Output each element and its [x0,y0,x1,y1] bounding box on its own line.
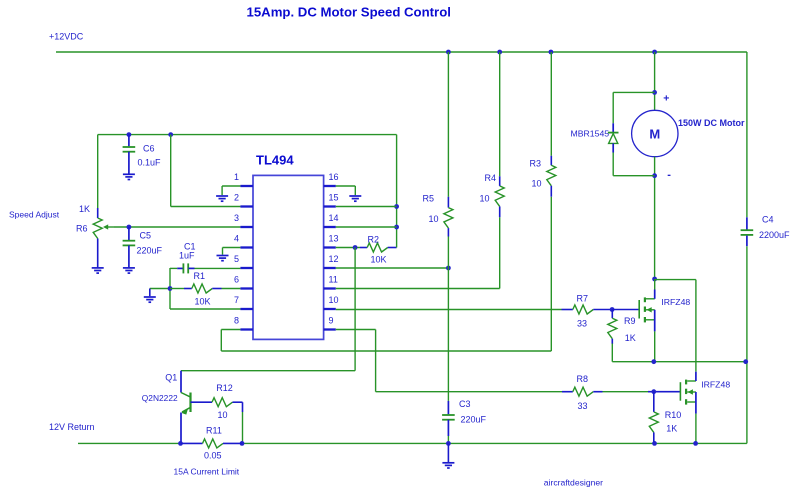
pin 2 stub [240,205,253,207]
ground pin4 [217,256,229,261]
junction dot lower source rail [693,441,698,446]
svg-text:C3: C3 [459,399,471,409]
pin 1 stub [240,185,253,187]
pin 9 stub [324,328,336,330]
diode D1 MBR1545 [608,123,619,152]
junction dot rail R3 [549,50,554,55]
svg-text:33: 33 [578,401,588,411]
label Q2N2222 [142,393,178,403]
pin 5 number [234,254,239,264]
svg-text:3: 3 [234,213,239,223]
svg-text:0.1uF: 0.1uF [138,158,162,168]
wire right bus lower segment [746,246,748,443]
ground pin1 [216,196,228,201]
junction dot emitter rail [178,441,183,446]
pin 5 stub [240,267,253,269]
label plus [663,92,669,104]
wire R9 bottom route [612,344,747,362]
junction dot motor rail [652,50,657,55]
wire upper drain [654,279,656,290]
wire drain branch [655,280,696,372]
pin 6 stub [240,287,253,289]
svg-text:aircraftdesigner: aircraftdesigner [544,477,603,487]
label R7 value 33 [577,319,587,329]
svg-text:M: M [649,126,660,141]
label aircraftdesigner [544,477,603,487]
label +12VDC [49,32,84,42]
label R8 [577,374,589,384]
label Speed Adjust [9,210,60,220]
resistor R5 [444,197,453,237]
resistor R12 [212,398,243,407]
capacitor C5 [123,227,136,267]
svg-text:1uF: 1uF [179,251,195,261]
svg-text:R9: R9 [624,316,636,326]
wire R8 to gate [603,391,681,393]
label C5 value 220uF [137,246,163,256]
wire pin12 row [336,267,449,269]
svg-text:R11: R11 [206,426,222,436]
resistor R2 [360,243,397,252]
junction dot R10 rail [652,441,657,446]
wire pin9 route [336,330,562,392]
svg-text:1: 1 [234,172,239,182]
label M [649,126,660,141]
wire pin1 [222,186,240,195]
svg-text:1K: 1K [625,333,636,343]
junction dot pin2 branch [168,132,173,137]
junction dot R10 top [651,389,656,394]
svg-text:C4: C4 [762,215,774,225]
pin 9 number [329,316,334,326]
svg-text:R12: R12 [216,383,233,393]
label R2 value 10K [371,255,387,265]
junction dot motor plus [652,90,657,95]
pin 14 stub [324,226,336,228]
svg-text:10K: 10K [371,255,387,265]
junction dot R9 top [610,307,615,312]
ground below C5 [123,268,135,273]
pin 4 stub [240,246,253,248]
resistor R1 [170,284,240,293]
svg-text:15A Current Limit: 15A Current Limit [174,467,240,477]
label 15A Current Limit [174,467,240,477]
label C3 [459,399,471,409]
svg-text:10K: 10K [195,297,211,307]
wire R4 top [499,52,501,176]
ground below C3 [442,463,454,468]
wire +12V right bus upper segment [746,52,748,217]
svg-text:4: 4 [234,234,239,244]
svg-text:0.05: 0.05 [204,451,222,461]
wire R5 bottom [447,237,449,269]
resistor R8 [562,387,603,396]
wire pin13 down branch [181,248,355,371]
pin 16 number [329,172,339,182]
pin 16 stub [324,185,336,187]
junction dot pin15 node [394,204,399,209]
label R3 [530,159,542,169]
label C1 value 1uF [179,251,195,261]
label R11 [206,426,222,436]
junction dot rail R4 [497,50,502,55]
wire pin4 [223,248,241,255]
label C3 value 220uF [461,415,487,425]
junction dot R1 left [168,286,173,291]
junction dot C3 bottom [446,441,451,446]
wire pin13 row [336,247,360,249]
svg-text:R8: R8 [577,374,589,384]
svg-text:Q1: Q1 [165,373,177,383]
svg-text:11: 11 [329,275,338,285]
transistor Q2 IRFZ48 upper [639,290,655,332]
pin 8 stub [240,328,253,330]
svg-text:IRFZ48: IRFZ48 [701,380,730,390]
junction dot C6 top [126,132,131,137]
label Q1 [165,373,177,383]
wire pin2 row [171,206,241,208]
label TL494 [256,153,294,168]
capacitor C3 [442,401,455,444]
label R10 [665,410,682,420]
pin 14 number [329,213,339,223]
pin 13 stub [324,246,336,248]
label R10 value 1K [666,424,677,434]
svg-text:10: 10 [532,179,542,189]
wire pin2 vertical [170,135,172,207]
label R12 value 10 [218,410,228,420]
svg-text:Q2N2222: Q2N2222 [142,393,178,403]
wire pin10 row [336,309,562,311]
wire pin15 row [336,206,397,208]
junction dot C5 top [126,225,131,230]
label R1 value 10K [195,297,211,307]
label C4 [762,215,774,225]
wire motor top [654,52,656,110]
junction dot source node [651,359,656,364]
wire C3 top [447,268,449,401]
pin 3 stub [240,226,253,228]
label R5 value 10 [429,214,439,224]
label IRFZ48 upper [661,297,690,307]
resistor R10 [649,392,658,444]
svg-text:R5: R5 [423,194,435,204]
svg-text:R3: R3 [530,159,542,169]
svg-text:R2: R2 [368,235,380,245]
svg-text:33: 33 [577,319,587,329]
pin 4 number [234,234,239,244]
label MBR1545 [571,129,610,139]
wire pin7 row [170,308,240,310]
wire C1 left rail [169,268,171,309]
ground pin16 [349,196,361,201]
pin 7 stub [240,308,253,310]
pin 1 number [234,172,239,182]
wire pin14 row [336,226,397,228]
wiper arrow R6 [103,224,114,229]
label R7 [577,294,589,304]
svg-text:10: 10 [329,295,339,305]
svg-text:13: 13 [329,234,339,244]
label C5 [140,231,152,241]
label C6 [143,144,155,154]
label R5 [423,194,435,204]
label R3 value 10 [532,179,542,189]
svg-text:1K: 1K [666,424,677,434]
svg-text:2200uF: 2200uF [759,230,790,240]
resistor R7 [562,305,613,314]
ground below C6 [123,174,135,179]
svg-text:15: 15 [329,193,339,203]
svg-text:7: 7 [234,295,239,305]
svg-text:C5: C5 [140,231,152,241]
label 150W DC Motor [678,118,745,128]
wire reference header [98,134,397,136]
wire pin11 row [336,217,500,288]
pin 15 stub [324,205,336,207]
wire +12V top rail [56,51,747,53]
junction dot right bus node [743,359,748,364]
svg-text:R1: R1 [194,271,206,281]
svg-text:10: 10 [218,410,228,420]
junction dot pin14 node [394,225,399,230]
wire R2 up [396,135,398,248]
pin 11 stub [324,287,336,289]
wire R5 top [447,52,449,197]
label R4 [485,173,497,183]
svg-text:220uF: 220uF [137,246,163,256]
svg-text:+12VDC: +12VDC [49,32,84,42]
label R2 [368,235,380,245]
svg-text:IRFZ48: IRFZ48 [661,297,690,307]
title text [247,5,451,20]
pin 10 number [329,295,339,305]
potentiometer R6 [93,218,102,267]
resistor R9 [608,310,617,345]
junction dot pin13 branch [353,245,358,250]
wire diode top [613,92,654,123]
svg-text:10: 10 [480,194,490,204]
label R12 [216,383,233,393]
wire motor bottom [654,157,656,279]
pin 8 number [234,316,239,326]
wire C3 ground stub [447,443,449,462]
svg-text:Speed Adjust: Speed Adjust [9,210,60,220]
label minus [667,169,671,181]
pin 6 number [234,275,239,285]
resistor R4 [495,176,504,217]
capacitor C1 [170,263,240,273]
transistor Q1 emitter [181,408,190,444]
svg-text:15Amp. DC Motor Speed Control: 15Amp. DC Motor Speed Control [247,5,451,20]
wire gate lead upper [612,309,639,311]
wire ground tap R1 row [150,288,170,290]
svg-text:1K: 1K [79,204,90,214]
capacitor C4 [741,217,754,246]
label C4 value 2200uF [759,230,790,240]
label R11 value 0.05 [204,451,222,461]
label R8 value 33 [578,401,588,411]
op-amp U1 TL494 body [253,175,324,339]
wire 12V return bottom rail right [242,442,747,444]
resistor R11 [181,439,243,448]
junction dot rail R5 [446,50,451,55]
label R4 value 10 [480,194,490,204]
transistor Q1 collector [181,371,190,397]
junction dot motor minus [652,173,657,178]
label R9 value 1K [625,333,636,343]
motor M1 circle [632,110,678,156]
svg-text:8: 8 [234,316,239,326]
wire pin8 route [221,197,551,351]
junction dot pin12 node [446,266,451,271]
pin 13 number [329,234,339,244]
wire upper source down [654,331,656,361]
transistor Q1 base bar [189,393,191,413]
transistor Q3 IRFZ48 lower [680,372,696,414]
wire R3 top [550,52,552,156]
wire lower source down [695,414,697,444]
svg-text:R10: R10 [665,410,682,420]
junction dot R12 rail [240,441,245,446]
wire pin3 row wiper [114,226,240,228]
capacitor C6 [123,135,136,174]
svg-text:R6: R6 [76,224,88,234]
label 1K [79,204,90,214]
svg-text:2: 2 [234,193,239,203]
pin 12 stub [324,267,336,269]
label C1 [184,242,196,252]
pin 2 number [234,193,239,203]
resistor R12 base lead [191,401,213,403]
wire R12 down [242,402,244,443]
svg-text:16: 16 [329,172,339,182]
pin 7 number [234,295,239,305]
pin 12 number [329,254,339,264]
junction dot drain branch [652,277,657,282]
ground R1 row [144,289,156,303]
svg-text:12: 12 [329,254,339,264]
svg-text:6: 6 [234,275,239,285]
svg-text:R7: R7 [577,294,589,304]
wire diode bottom [613,153,654,176]
wire 12V return bottom rail left [78,442,181,444]
svg-text:-: - [667,169,671,181]
svg-text:+: + [663,92,669,104]
label IRFZ48 lower [701,380,730,390]
pin 15 number [329,193,339,203]
svg-text:5: 5 [234,254,239,264]
svg-text:220uF: 220uF [461,415,487,425]
svg-text:10: 10 [429,214,439,224]
svg-text:14: 14 [329,213,339,223]
label 12V Return [49,422,95,432]
svg-text:TL494: TL494 [256,153,294,168]
svg-text:R4: R4 [485,173,497,183]
label R1 [194,271,206,281]
label R9 [624,316,636,326]
ground below R6 [92,268,104,273]
wire pin16 [336,186,356,195]
label C6 value 0.1uF [138,158,162,168]
resistor R3 [547,156,556,197]
svg-text:9: 9 [329,316,334,326]
svg-text:12V Return: 12V Return [49,422,95,432]
pin 10 stub [324,308,336,310]
svg-text:C6: C6 [143,144,155,154]
wire R6 top [97,135,99,218]
svg-text:150W DC Motor: 150W DC Motor [678,118,745,128]
svg-text:MBR1545: MBR1545 [571,129,610,139]
pin 11 number [329,275,338,285]
pin 3 number [234,213,239,223]
label R6 [76,224,88,234]
